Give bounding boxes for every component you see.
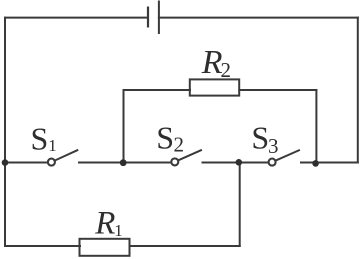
battery cell: long plate (right) (158, 2, 160, 34)
svg-text:S: S (156, 119, 174, 155)
svg-text:R: R (94, 206, 115, 242)
battery cell: short plate (left) (147, 8, 149, 27)
label R2 (201, 44, 231, 82)
wire: R2 branch left vertical (123, 90, 125, 163)
wire: left edge of outer loop (4, 18, 6, 246)
wire: S2 blade end to S3, through R1 tap node (203, 162, 268, 164)
label S1 (31, 121, 57, 157)
svg-text:S: S (31, 121, 49, 157)
wire: R2 branch top right horizontal (239, 89, 316, 91)
label S2 (156, 119, 184, 156)
resistor R2 body (190, 79, 239, 95)
node: junction dot at R2 left tap (120, 159, 127, 166)
wire: middle bus, left edge to switch S1 (5, 162, 47, 164)
switch S3 blade (275, 150, 299, 160)
switch S1 pivot circle (48, 159, 55, 166)
svg-text:2: 2 (221, 58, 232, 82)
wire: bottom edge left of R1 (5, 245, 80, 247)
wire: top edge right of battery (159, 17, 358, 19)
wire: top edge left of battery (5, 17, 147, 19)
wire: right edge of outer loop (357, 18, 359, 163)
wire: R2 branch right vertical (315, 90, 317, 163)
switch S1 blade (55, 150, 78, 160)
wire: R1 branch vertical from middle bus down (239, 163, 241, 247)
svg-text:3: 3 (268, 134, 279, 158)
svg-text:S: S (251, 120, 269, 156)
wire: S3 blade end to right edge, through R2 right tap node (301, 162, 358, 164)
node: junction dot at R2 right tap (312, 160, 319, 167)
label S3 (251, 120, 278, 158)
label R1 (94, 206, 122, 242)
node: junction dot at left edge / middle bus (2, 159, 9, 166)
switch S2 blade (178, 150, 201, 160)
svg-text:1: 1 (48, 136, 57, 155)
wire: bottom edge right of R1 (130, 245, 240, 247)
switch S2 pivot circle (171, 158, 178, 165)
svg-text:R: R (201, 44, 223, 81)
switch S3 pivot circle (269, 159, 276, 166)
resistor R1 body (80, 239, 130, 256)
wire: S1 blade end to S2, through R2 left tap node (79, 162, 170, 164)
svg-text:2: 2 (174, 133, 185, 157)
wire: R2 branch top left horizontal (124, 89, 191, 91)
node: junction dot at R1 tap (236, 159, 243, 166)
svg-text:1: 1 (114, 221, 123, 240)
